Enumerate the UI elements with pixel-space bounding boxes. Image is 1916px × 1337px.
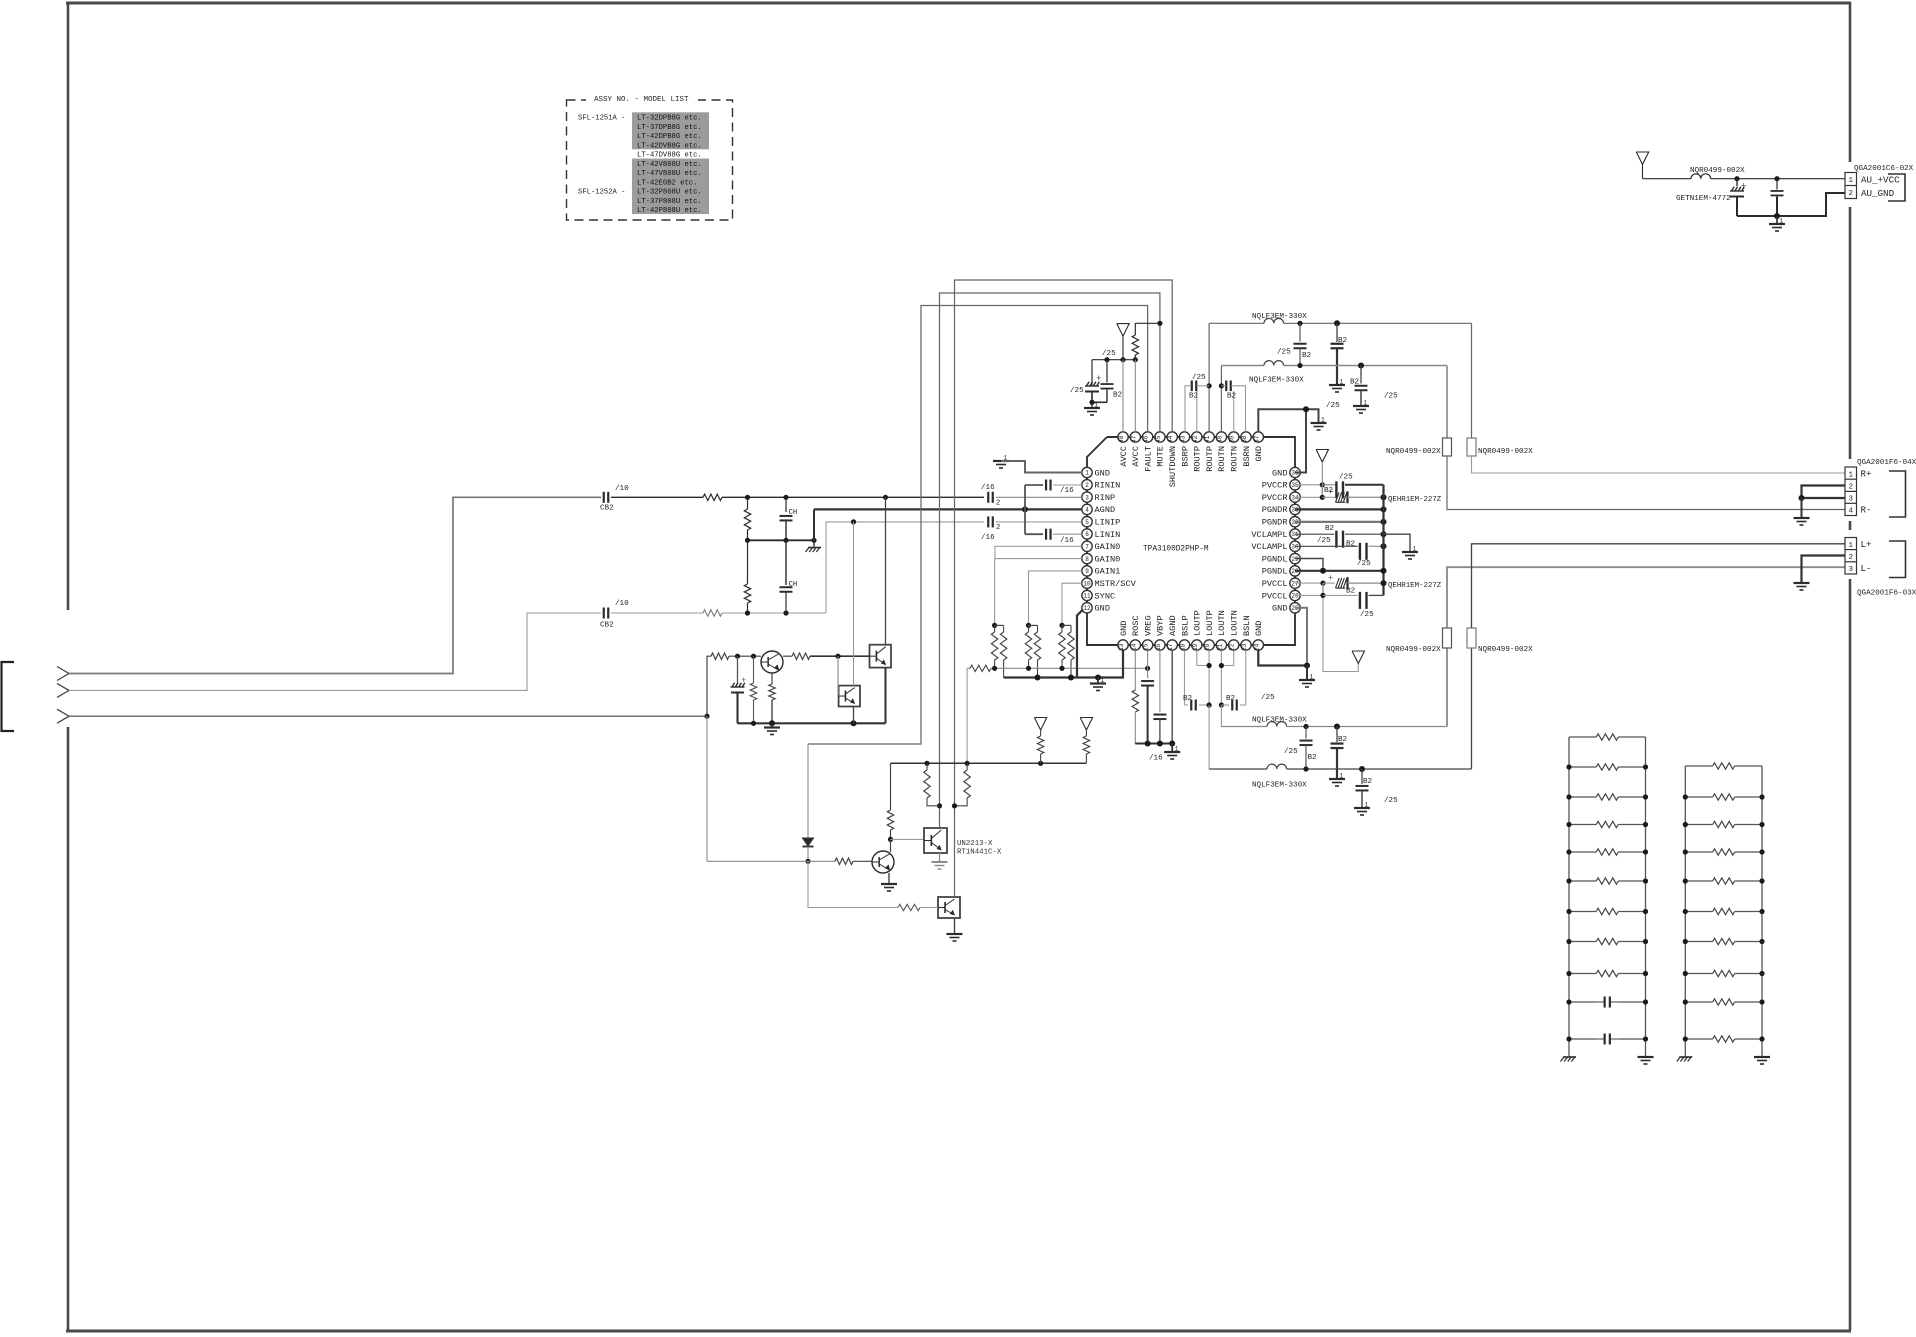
svg-text:NQR0499-002X: NQR0499-002X: [1386, 448, 1441, 456]
svg-text:ROUTN: ROUTN: [1217, 446, 1227, 472]
svg-text:VREG: VREG: [1143, 615, 1153, 636]
svg-text:19: 19: [1192, 643, 1199, 651]
svg-text:15: 15: [1143, 643, 1150, 651]
svg-text:1: 1: [1364, 400, 1368, 407]
svg-text:22: 22: [1229, 643, 1236, 651]
svg-text:LT-42P808U etc.: LT-42P808U etc.: [637, 207, 702, 215]
svg-text:GND: GND: [1254, 621, 1264, 636]
svg-text:/25: /25: [1070, 387, 1084, 395]
svg-text:2: 2: [1848, 190, 1853, 198]
svg-text:RT1N441C-X: RT1N441C-X: [957, 849, 1002, 857]
svg-text:1: 1: [1848, 542, 1853, 550]
svg-text:29: 29: [1291, 556, 1299, 563]
svg-text:GND: GND: [1095, 604, 1110, 614]
svg-text:LT-32P808U etc.: LT-32P808U etc.: [637, 189, 702, 197]
svg-text:PVCCL: PVCCL: [1262, 591, 1288, 601]
svg-text:2: 2: [1848, 554, 1853, 562]
svg-text:20: 20: [1204, 643, 1211, 651]
svg-text:AGND: AGND: [1095, 505, 1116, 515]
svg-text:NQLF3EM-330X: NQLF3EM-330X: [1249, 377, 1304, 385]
svg-text:/25: /25: [1192, 374, 1206, 382]
svg-text:26: 26: [1291, 593, 1299, 600]
svg-text:30: 30: [1291, 544, 1299, 551]
svg-text:GND: GND: [1272, 468, 1287, 478]
svg-text:41: 41: [1204, 435, 1211, 443]
svg-text:2: 2: [996, 524, 1000, 532]
svg-text:ROUTP: ROUTP: [1193, 446, 1203, 472]
svg-text:PVCCL: PVCCL: [1262, 579, 1288, 589]
svg-text:17: 17: [1167, 643, 1174, 651]
svg-text:/16: /16: [981, 484, 995, 492]
svg-text:GAIN1: GAIN1: [1095, 567, 1121, 577]
svg-text:TPA3100D2PHP-M: TPA3100D2PHP-M: [1143, 546, 1209, 554]
svg-text:AU_+VCC: AU_+VCC: [1861, 174, 1900, 185]
svg-text:47: 47: [1130, 435, 1137, 443]
svg-text:43: 43: [1180, 435, 1187, 443]
svg-text:QEHR1EM-227Z: QEHR1EM-227Z: [1388, 582, 1442, 590]
svg-text:1: 1: [1321, 417, 1325, 424]
svg-text:1: 1: [1365, 802, 1369, 809]
svg-text:/10: /10: [615, 485, 629, 493]
svg-text:BSRP: BSRP: [1180, 446, 1190, 467]
svg-text:NQLF3EM-330X: NQLF3EM-330X: [1252, 717, 1307, 725]
svg-text:13: 13: [1118, 643, 1125, 651]
svg-text:/16: /16: [981, 534, 995, 542]
svg-text:4: 4: [1085, 507, 1089, 514]
svg-text:PGNDL: PGNDL: [1262, 554, 1288, 564]
svg-text:24: 24: [1253, 643, 1260, 651]
svg-text:1: 1: [1780, 218, 1784, 225]
svg-text:ROUTP: ROUTP: [1205, 446, 1215, 472]
svg-text:21: 21: [1216, 643, 1223, 651]
svg-text:LT-42V808U etc.: LT-42V808U etc.: [637, 161, 702, 169]
svg-text:NQR0499-002X: NQR0499-002X: [1386, 646, 1441, 654]
svg-text:VBYP: VBYP: [1156, 615, 1166, 636]
svg-text:8: 8: [1085, 556, 1089, 563]
svg-text:MSTR/SCV: MSTR/SCV: [1095, 579, 1137, 589]
svg-text:/25: /25: [1326, 402, 1340, 410]
svg-text:GND: GND: [1119, 621, 1129, 636]
svg-text:CH: CH: [789, 509, 798, 517]
svg-text:2: 2: [1848, 484, 1853, 492]
svg-text:LT-42E0B2 etc.: LT-42E0B2 etc.: [637, 179, 697, 187]
svg-text:46: 46: [1143, 435, 1150, 443]
svg-text:R+: R+: [1861, 469, 1872, 480]
svg-text:B2: B2: [1183, 695, 1193, 703]
svg-text:/25: /25: [1357, 560, 1371, 568]
svg-text:VCLAMPL: VCLAMPL: [1251, 542, 1287, 552]
svg-text:BSLN: BSLN: [1242, 615, 1252, 636]
svg-text:VCLAMPL: VCLAMPL: [1251, 530, 1287, 540]
svg-text:/16: /16: [1060, 537, 1074, 545]
svg-text:GND: GND: [1254, 446, 1264, 461]
svg-text:B2: B2: [1308, 754, 1318, 762]
svg-text:NQLF3EM-330X: NQLF3EM-330X: [1252, 313, 1307, 321]
svg-text:LOUTN: LOUTN: [1230, 610, 1240, 636]
svg-text:1: 1: [1848, 472, 1853, 480]
svg-text:LININ: LININ: [1095, 530, 1121, 540]
svg-text:QGA2001C6-02X: QGA2001C6-02X: [1854, 165, 1914, 173]
svg-text:1: 1: [1175, 746, 1179, 753]
svg-text:MUTE: MUTE: [1156, 446, 1166, 467]
svg-text:23: 23: [1241, 643, 1248, 651]
svg-text:L+: L+: [1861, 539, 1872, 550]
svg-text:B2: B2: [1346, 541, 1356, 549]
svg-text:/25: /25: [1339, 474, 1353, 482]
svg-text:B2: B2: [1325, 525, 1335, 533]
svg-text:PGNDR: PGNDR: [1262, 518, 1288, 528]
svg-text:LT-47DV88G etc.: LT-47DV88G etc.: [637, 152, 702, 160]
svg-text:37: 37: [1253, 435, 1260, 443]
svg-text:LT-42DVB8G etc.: LT-42DVB8G etc.: [637, 142, 702, 150]
svg-text:/25: /25: [1102, 350, 1116, 358]
svg-text:AGND: AGND: [1168, 615, 1178, 636]
svg-text:1: 1: [1095, 402, 1099, 409]
svg-text:B2: B2: [1227, 393, 1237, 401]
svg-text:/25: /25: [1384, 393, 1398, 401]
svg-text:CH: CH: [789, 581, 798, 589]
svg-text:GAIN0: GAIN0: [1095, 542, 1121, 552]
svg-text:B2: B2: [1363, 778, 1373, 786]
svg-text:QGA2001F6-03X: QGA2001F6-03X: [1857, 590, 1916, 598]
svg-text:9: 9: [1085, 568, 1089, 575]
svg-text:SYNC: SYNC: [1095, 591, 1116, 601]
svg-text:LT-37DPB8G etc.: LT-37DPB8G etc.: [637, 124, 702, 132]
svg-text:GND: GND: [1095, 468, 1110, 478]
svg-text:LOUTN: LOUTN: [1217, 610, 1227, 636]
svg-text:42: 42: [1192, 435, 1199, 443]
svg-text:RININ: RININ: [1095, 481, 1121, 491]
svg-text:14: 14: [1130, 643, 1137, 651]
svg-text:NQLF3EM-330X: NQLF3EM-330X: [1252, 782, 1307, 790]
svg-text:NQR0499-002X: NQR0499-002X: [1478, 448, 1533, 456]
svg-text:/25: /25: [1261, 694, 1275, 702]
svg-text:1: 1: [1413, 546, 1417, 553]
svg-text:2: 2: [996, 500, 1000, 508]
svg-text:LT-32DPB8G etc.: LT-32DPB8G etc.: [637, 115, 702, 123]
svg-text:45: 45: [1155, 435, 1162, 443]
svg-text:35: 35: [1291, 482, 1299, 489]
svg-text:10: 10: [1083, 580, 1091, 587]
svg-text:ROSC: ROSC: [1131, 615, 1141, 636]
svg-text:27: 27: [1291, 580, 1299, 587]
svg-text:6: 6: [1085, 531, 1089, 538]
svg-text:B2: B2: [1113, 392, 1123, 400]
svg-text:ROUTN: ROUTN: [1230, 446, 1240, 472]
svg-text:48: 48: [1118, 435, 1125, 443]
svg-text:PGNDL: PGNDL: [1262, 567, 1288, 577]
svg-text:/10: /10: [615, 600, 629, 608]
svg-text:QGA2001F6-04X: QGA2001F6-04X: [1857, 459, 1916, 467]
svg-text:1: 1: [1310, 674, 1314, 681]
svg-text:PVCCR: PVCCR: [1262, 493, 1288, 503]
svg-text:QEHR1EM-227Z: QEHR1EM-227Z: [1388, 496, 1442, 504]
svg-text:12: 12: [1083, 605, 1091, 612]
svg-text:LOUTP: LOUTP: [1193, 610, 1203, 636]
svg-text:SFL-1251A -: SFL-1251A -: [578, 115, 625, 123]
svg-text:CB2: CB2: [600, 622, 614, 630]
svg-text:BSRN: BSRN: [1242, 446, 1252, 467]
svg-text:1: 1: [1085, 470, 1089, 477]
svg-text:LINIP: LINIP: [1095, 518, 1121, 528]
svg-text:R-: R-: [1861, 505, 1872, 516]
svg-text:2: 2: [1085, 482, 1089, 489]
svg-text:B2: B2: [1338, 736, 1348, 744]
svg-text:B2: B2: [1346, 588, 1356, 596]
svg-text:/25: /25: [1384, 797, 1398, 805]
svg-text:UN2213-X: UN2213-X: [957, 840, 993, 848]
svg-text:RINP: RINP: [1095, 493, 1116, 503]
svg-text:NQR0499-002X: NQR0499-002X: [1478, 646, 1533, 654]
svg-text:AVCC: AVCC: [1119, 446, 1129, 467]
svg-text:SHUTDOWN: SHUTDOWN: [1168, 446, 1178, 487]
svg-text:/25: /25: [1317, 537, 1331, 545]
svg-text:/16: /16: [1060, 487, 1074, 495]
svg-text:SFL-1252A -: SFL-1252A -: [578, 189, 625, 197]
svg-text:1: 1: [1340, 379, 1344, 386]
svg-text:LT-47V808U etc.: LT-47V808U etc.: [637, 170, 702, 178]
svg-text:ASSY NO. - MODEL LIST: ASSY NO. - MODEL LIST: [594, 96, 689, 104]
svg-text:44: 44: [1167, 435, 1174, 443]
svg-text:40: 40: [1216, 435, 1223, 443]
svg-text:B2: B2: [1226, 695, 1236, 703]
svg-text:GAIN0: GAIN0: [1095, 554, 1121, 564]
svg-text:LT-37P808U etc.: LT-37P808U etc.: [637, 198, 702, 206]
svg-text:1: 1: [1340, 773, 1344, 780]
svg-text:3: 3: [1085, 494, 1089, 501]
svg-text:7: 7: [1085, 544, 1089, 551]
svg-text:1: 1: [1101, 677, 1105, 684]
svg-text:GND: GND: [1272, 604, 1287, 614]
svg-text:B2: B2: [1302, 352, 1312, 360]
svg-text:16: 16: [1155, 643, 1162, 651]
svg-text:B2: B2: [1338, 337, 1348, 345]
svg-text:LT-42DPB8G etc.: LT-42DPB8G etc.: [637, 133, 702, 141]
svg-text:PGNDR: PGNDR: [1262, 505, 1288, 515]
svg-text:3: 3: [1848, 566, 1853, 574]
svg-text:/16: /16: [1149, 755, 1163, 763]
svg-text:5: 5: [1085, 519, 1089, 526]
svg-text:AU_GND: AU_GND: [1861, 188, 1895, 199]
svg-text:BSLP: BSLP: [1180, 615, 1190, 636]
svg-text:PVCCR: PVCCR: [1262, 481, 1288, 491]
svg-text:/25: /25: [1277, 349, 1291, 357]
svg-text:38: 38: [1241, 435, 1248, 443]
svg-text:39: 39: [1229, 435, 1236, 443]
svg-text:11: 11: [1083, 593, 1091, 600]
svg-text:B2: B2: [1350, 379, 1360, 387]
svg-text:+: +: [1328, 573, 1333, 583]
svg-text:18: 18: [1180, 643, 1187, 651]
svg-text:GETN1EM-4772: GETN1EM-4772: [1676, 195, 1731, 203]
svg-text:1: 1: [1848, 177, 1853, 185]
svg-text:L-: L-: [1861, 563, 1872, 574]
svg-text:LOUTP: LOUTP: [1205, 610, 1215, 636]
svg-text:CB2: CB2: [600, 505, 614, 513]
svg-text:3: 3: [1848, 496, 1853, 504]
svg-text:/25: /25: [1284, 748, 1298, 756]
svg-text:4: 4: [1848, 508, 1853, 516]
svg-text:FAULT: FAULT: [1143, 446, 1153, 472]
svg-text:+: +: [1328, 487, 1333, 497]
svg-text:B2: B2: [1189, 393, 1199, 401]
svg-text:AVCC: AVCC: [1131, 446, 1141, 467]
svg-text:/25: /25: [1360, 611, 1374, 619]
